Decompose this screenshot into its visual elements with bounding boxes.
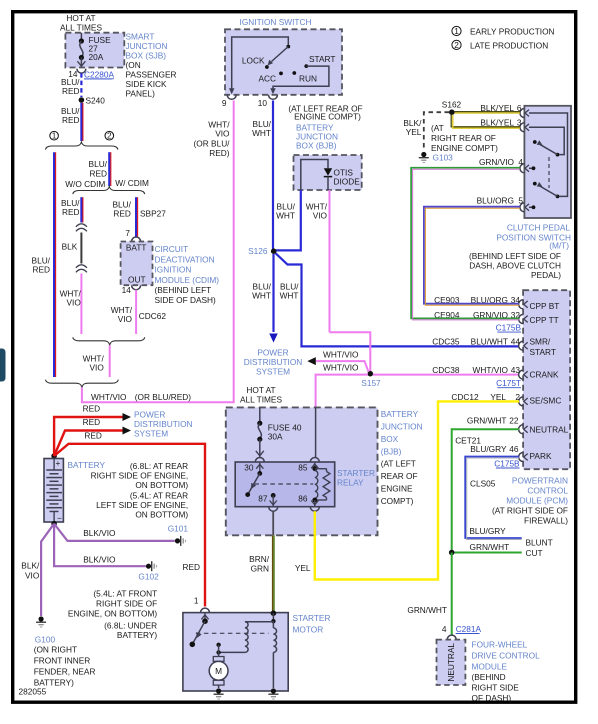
svg-text:START: START bbox=[530, 347, 556, 357]
svg-text:W/O CDIM: W/O CDIM bbox=[65, 179, 105, 189]
clutch switch upper fixed contact (pin 4) bbox=[529, 167, 532, 169]
wire BLK/YEL S162 to clutch pin 3 bbox=[451, 115, 520, 127]
svg-text:PARK: PARK bbox=[530, 451, 552, 461]
svg-text:(6.8L: UNDER: (6.8L: UNDER bbox=[104, 620, 157, 630]
relay coil parallel resistor bbox=[315, 468, 327, 470]
wire WHT/VIO (OR BLU/RED) to ignition switch pin 9 bbox=[82, 101, 234, 403]
contact LOCK bbox=[265, 65, 269, 69]
svg-text:5: 5 bbox=[518, 196, 523, 206]
relay pin 30 bbox=[255, 458, 264, 462]
svg-text:−: − bbox=[57, 513, 62, 523]
svg-text:JUNCTION: JUNCTION bbox=[381, 422, 423, 432]
svg-text:BATTERY: BATTERY bbox=[381, 409, 419, 419]
svg-text:IGNITION: IGNITION bbox=[155, 265, 192, 275]
PCM pin NEUTRAL bbox=[519, 425, 524, 434]
svg-text:PASSENGER: PASSENGER bbox=[126, 69, 177, 79]
svg-text:PEDAL): PEDAL) bbox=[531, 270, 561, 280]
clutch switch lower pole bbox=[556, 195, 560, 199]
wire WHT/VIO S157 to starter relay pin 85 bbox=[316, 375, 368, 408]
CDIM pin 14 bbox=[132, 285, 141, 290]
svg-text:FRONT INNER: FRONT INNER bbox=[34, 656, 91, 666]
PCM pin CPP TT bbox=[519, 315, 524, 324]
svg-text:7: 7 bbox=[125, 228, 130, 238]
svg-text:85: 85 bbox=[298, 463, 308, 473]
svg-text:LOCK: LOCK bbox=[242, 56, 265, 66]
svg-text:PANEL): PANEL) bbox=[126, 88, 156, 98]
svg-text:WHT/VIO: WHT/VIO bbox=[91, 392, 127, 402]
starter motor box bbox=[183, 613, 288, 691]
svg-text:RED): RED) bbox=[209, 148, 230, 158]
svg-text:OF DASH): OF DASH) bbox=[472, 693, 512, 703]
svg-text:RIGHT SIDE OF ENGINE,: RIGHT SIDE OF ENGINE, bbox=[91, 471, 189, 481]
starter solenoid ground (right) bbox=[271, 688, 276, 693]
ground G103 bbox=[421, 152, 426, 157]
svg-text:DIODE: DIODE bbox=[334, 177, 361, 187]
svg-text:VIO: VIO bbox=[215, 129, 230, 139]
svg-text:BLK: BLK bbox=[62, 242, 78, 252]
starter pull-in coil bbox=[245, 621, 274, 623]
ignition switch pin 10 bbox=[269, 95, 278, 100]
svg-text:43: 43 bbox=[511, 365, 521, 375]
svg-text:W/ CDIM: W/ CDIM bbox=[115, 178, 149, 188]
svg-text:(AT RIGHT SIDE OF: (AT RIGHT SIDE OF bbox=[492, 506, 568, 516]
starter relay box bbox=[235, 462, 335, 507]
svg-text:GRN/WHT: GRN/WHT bbox=[467, 416, 507, 426]
OTIS diode box (in BJB) bbox=[294, 155, 362, 190]
svg-text:BOX (SJB): BOX (SJB) bbox=[126, 50, 167, 60]
wire WHT/VIO inside BJB to relay pin 85 bbox=[315, 407, 317, 457]
svg-text:1: 1 bbox=[52, 131, 57, 141]
svg-text:BLK/VIO: BLK/VIO bbox=[83, 555, 116, 565]
wire WHT/VIO S157 to power distribution arrow bbox=[316, 361, 369, 372]
relay switch lever bbox=[257, 471, 262, 476]
svg-text:JUNCTION: JUNCTION bbox=[126, 41, 168, 51]
svg-text:(5.4L: AT REAR: (5.4L: AT REAR bbox=[130, 491, 188, 501]
wire GRN/WHT junction to 4WD module pin 4 bbox=[451, 553, 453, 636]
svg-text:C2280A: C2280A bbox=[84, 69, 114, 79]
junction BRN/GRN at starter bbox=[271, 610, 277, 616]
svg-text:ENGINE COMPT): ENGINE COMPT) bbox=[294, 112, 361, 122]
svg-text:(AT: (AT bbox=[431, 123, 444, 133]
svg-text:HOT AT: HOT AT bbox=[66, 13, 95, 23]
powertrain control module (PCM) box bbox=[523, 290, 570, 469]
svg-text:WHT/VIO: WHT/VIO bbox=[323, 349, 359, 359]
starter hold-in coil bbox=[272, 621, 274, 628]
svg-text:CPP BT: CPP BT bbox=[530, 301, 560, 311]
svg-text:C175B: C175B bbox=[494, 459, 520, 469]
wire BLU/GRY PCM pin 46 to blunt cut bbox=[465, 457, 522, 539]
production split brace (early/late) bbox=[46, 142, 118, 150]
wire RED battery to power distribution (1) bbox=[54, 417, 123, 456]
svg-text:(ON: (ON bbox=[126, 60, 141, 70]
svg-text:WHT: WHT bbox=[276, 211, 295, 221]
legend: late production symbol bbox=[452, 40, 461, 49]
wire GRN/WHT junction to blunt cut bbox=[455, 552, 522, 554]
svg-text:G100: G100 bbox=[35, 635, 56, 645]
svg-text:BLU/WHT: BLU/WHT bbox=[471, 336, 508, 346]
svg-text:RED: RED bbox=[113, 209, 131, 219]
svg-text:BATTERY): BATTERY) bbox=[117, 630, 157, 640]
svg-text:STARTER: STARTER bbox=[293, 613, 331, 623]
svg-text:RED: RED bbox=[62, 115, 80, 125]
svg-text:STARTER: STARTER bbox=[337, 468, 375, 478]
fuse 40 30A feed wire bbox=[259, 407, 261, 421]
svg-text:BOX (BJB): BOX (BJB) bbox=[296, 141, 337, 151]
clutch switch internal: pin 6 to lower movable contact bbox=[529, 113, 568, 196]
svg-text:RED: RED bbox=[83, 417, 101, 427]
ignition switch box bbox=[225, 29, 342, 95]
SJB pin 14 connector C2280A bbox=[77, 69, 86, 74]
svg-text:RELAY: RELAY bbox=[337, 478, 364, 488]
svg-text:20A: 20A bbox=[89, 52, 104, 62]
svg-text:BLK/YEL: BLK/YEL bbox=[480, 117, 514, 127]
svg-text:VIO: VIO bbox=[25, 570, 40, 580]
battery junction box (BJB) bbox=[226, 407, 378, 535]
svg-text:ACC: ACC bbox=[258, 74, 276, 84]
svg-text:VIO: VIO bbox=[90, 363, 105, 373]
wire BLU/WHT S126 branch to PCM pin 44 bbox=[276, 253, 520, 346]
ignition switch rotor pivot bbox=[286, 45, 290, 49]
wire BLU/WHT ignition pin 10 to S126 bbox=[272, 101, 274, 250]
ground G100 bbox=[39, 616, 44, 621]
node early production (1) bbox=[50, 131, 59, 140]
svg-text:+: + bbox=[56, 458, 61, 468]
contact RUN bbox=[292, 71, 296, 75]
fuse 40 30A bbox=[257, 421, 262, 426]
svg-text:MODULE: MODULE bbox=[472, 661, 508, 671]
svg-text:BATT: BATT bbox=[126, 242, 147, 252]
svg-text:S126: S126 bbox=[248, 246, 268, 256]
wire BLU/RED from SJB pin 14 to S240 (dashed) bbox=[80, 73, 82, 97]
svg-text:SYSTEM: SYSTEM bbox=[134, 429, 168, 439]
svg-text:RUN: RUN bbox=[299, 74, 317, 84]
svg-text:ON BOTTOM): ON BOTTOM) bbox=[135, 509, 188, 519]
svg-text:ENGINE COMPT): ENGINE COMPT) bbox=[431, 143, 498, 153]
OTIS diode internal wire bbox=[301, 160, 328, 191]
starter solenoid switch bbox=[204, 613, 206, 622]
svg-text:BRN/: BRN/ bbox=[249, 554, 270, 564]
wire RED battery to power distribution (2) bbox=[54, 431, 123, 457]
battery bbox=[44, 459, 63, 523]
W/O CDIM vs W/ CDIM split brace bbox=[73, 187, 145, 195]
relay coil bbox=[315, 471, 318, 499]
smart junction box (SJB) fuse box bbox=[65, 33, 124, 68]
wire BLK/YEL S162 to clutch pin 6 bbox=[455, 111, 521, 113]
clutch switch internal: pin 3 to upper movable contact bbox=[529, 127, 564, 154]
svg-text:S157: S157 bbox=[361, 378, 381, 388]
svg-text:POWER: POWER bbox=[257, 348, 288, 358]
svg-text:G102: G102 bbox=[138, 572, 159, 582]
OTIS diode symbol bbox=[324, 168, 332, 176]
clutch switch lower fixed contact (pin 5) bbox=[529, 206, 532, 208]
wire BLU/RED early-production branch bbox=[53, 152, 55, 377]
ground G101 bbox=[175, 538, 180, 543]
svg-text:CDC35: CDC35 bbox=[432, 336, 460, 346]
svg-text:2: 2 bbox=[107, 131, 112, 141]
svg-text:SYSTEM: SYSTEM bbox=[256, 367, 290, 377]
in-line connector (W/O CDIM lower) bbox=[76, 265, 87, 268]
clutch switch pin 6 bbox=[520, 109, 525, 118]
svg-text:(BEHIND: (BEHIND bbox=[472, 672, 506, 682]
contact START bbox=[304, 64, 308, 68]
wire coil to motor bbox=[219, 651, 245, 653]
svg-text:RED: RED bbox=[89, 169, 107, 179]
svg-text:CDC62: CDC62 bbox=[139, 311, 167, 321]
relay pin 85 bbox=[310, 458, 319, 463]
PCM pin CRANK bbox=[519, 370, 524, 379]
svg-text:MODULE (PCM): MODULE (PCM) bbox=[506, 496, 568, 506]
wire GRN/WHT PCM pin 22 down bbox=[452, 429, 519, 550]
svg-text:RED: RED bbox=[62, 86, 80, 96]
svg-text:SMR/: SMR/ bbox=[530, 336, 551, 346]
svg-text:DISTRIBUTION: DISTRIBUTION bbox=[244, 357, 303, 367]
svg-text:BLK/VIO: BLK/VIO bbox=[83, 528, 116, 538]
svg-text:MOTOR: MOTOR bbox=[293, 625, 324, 635]
battery positive junction bbox=[51, 453, 57, 459]
clutch switch pin 5 bbox=[520, 203, 525, 212]
wire (brn/grn) relay pin 87 inside BJB bbox=[272, 511, 274, 535]
svg-text:RED: RED bbox=[32, 265, 50, 275]
wire BLK/YEL S162 to G103 (dashed) bbox=[424, 112, 449, 150]
wire BRN/GRN relay pin 87 to starter motor bbox=[272, 535, 274, 611]
svg-text:30A: 30A bbox=[268, 432, 283, 442]
svg-text:POWERTRAIN: POWERTRAIN bbox=[512, 476, 568, 486]
wire BLU/RED from S240 to production split bbox=[80, 103, 82, 141]
svg-text:GRN/WHT: GRN/WHT bbox=[470, 542, 510, 552]
svg-text:GRN: GRN bbox=[251, 564, 269, 574]
svg-text:VIO: VIO bbox=[118, 314, 133, 324]
svg-text:C281A: C281A bbox=[456, 624, 482, 634]
wire BLU/RED (W/O CDIM) bbox=[80, 197, 82, 222]
clutch pedal position switch box bbox=[524, 106, 571, 218]
wire BLU/ORG clutch pin 5 to PCM pin 34 bbox=[424, 207, 520, 304]
svg-text:(M/T): (M/T) bbox=[549, 241, 569, 251]
svg-text:44: 44 bbox=[511, 336, 521, 346]
svg-text:YEL: YEL bbox=[295, 563, 311, 573]
splice S162 bbox=[449, 109, 455, 115]
svg-text:VIO: VIO bbox=[67, 298, 82, 308]
svg-text:BLU/ORG: BLU/ORG bbox=[477, 196, 514, 206]
svg-text:NEUTRAL: NEUTRAL bbox=[530, 424, 569, 434]
svg-text:C175T: C175T bbox=[496, 378, 521, 388]
svg-text:BOX: BOX bbox=[381, 434, 399, 444]
svg-text:(ON RIGHT: (ON RIGHT bbox=[34, 644, 77, 654]
svg-text:WHT/VIO: WHT/VIO bbox=[473, 365, 509, 375]
svg-text:RED: RED bbox=[84, 430, 102, 440]
ignition switch lever bbox=[272, 47, 289, 62]
svg-text:WHT/VIO: WHT/VIO bbox=[323, 362, 359, 372]
svg-text:(OR BLU/: (OR BLU/ bbox=[194, 139, 231, 149]
svg-text:CONTROL: CONTROL bbox=[527, 486, 568, 496]
svg-text:(BJB): (BJB) bbox=[381, 447, 402, 457]
clutch switch pin 4 bbox=[520, 164, 525, 173]
svg-text:OUT: OUT bbox=[128, 274, 146, 284]
svg-text:COMPT): COMPT) bbox=[381, 496, 414, 506]
battery negative junction bbox=[51, 521, 57, 527]
svg-text:BATTERY: BATTERY bbox=[68, 460, 106, 470]
svg-text:NEUTRAL: NEUTRAL bbox=[446, 643, 456, 682]
splice S240 bbox=[79, 97, 85, 103]
svg-text:(AT LEFT: (AT LEFT bbox=[381, 459, 416, 469]
svg-text:G101: G101 bbox=[168, 524, 189, 534]
svg-text:ALL TIMES: ALL TIMES bbox=[240, 394, 282, 404]
svg-text:4: 4 bbox=[442, 624, 447, 634]
fuse 27 20A bbox=[80, 33, 82, 41]
svg-text:EARLY PRODUCTION: EARLY PRODUCTION bbox=[470, 27, 555, 37]
svg-text:1: 1 bbox=[454, 26, 459, 36]
wire BLK/VIO battery to G101 bbox=[54, 524, 175, 541]
four-wheel drive control module (NEUTRAL) box bbox=[437, 640, 466, 685]
svg-text:SIDE KICK: SIDE KICK bbox=[126, 79, 168, 89]
svg-text:10: 10 bbox=[258, 98, 268, 108]
svg-text:ENGINE: ENGINE bbox=[381, 484, 413, 494]
svg-text:C175B: C175B bbox=[496, 323, 522, 333]
svg-text:ON BOTTOM): ON BOTTOM) bbox=[135, 480, 188, 490]
svg-text:22: 22 bbox=[509, 416, 519, 426]
wire BLU/RED late-production branch bbox=[108, 152, 110, 186]
svg-text:CDC38: CDC38 bbox=[432, 365, 460, 375]
svg-text:IGNITION SWITCH: IGNITION SWITCH bbox=[240, 17, 312, 27]
svg-text:WHT: WHT bbox=[252, 128, 271, 138]
svg-text:(6.8L: AT REAR: (6.8L: AT REAR bbox=[130, 461, 188, 471]
svg-text:DISTRIBUTION: DISTRIBUTION bbox=[134, 419, 193, 429]
svg-text:ENGINE, ON BOTTOM): ENGINE, ON BOTTOM) bbox=[68, 608, 158, 618]
PCM pin SMR bbox=[519, 341, 524, 350]
4WD module pin 4 connector C281A bbox=[447, 635, 456, 640]
svg-text:BLU/GRY: BLU/GRY bbox=[469, 526, 506, 536]
svg-text:START: START bbox=[309, 54, 335, 64]
svg-text:RIGHT REAR OF: RIGHT REAR OF bbox=[431, 133, 496, 143]
splice S157 bbox=[368, 371, 374, 377]
wire BLK/VIO battery to G102 bbox=[54, 524, 146, 567]
in-line connector (W/O CDIM upper) bbox=[76, 224, 87, 227]
svg-text:1: 1 bbox=[194, 596, 199, 606]
svg-text:RED: RED bbox=[62, 207, 80, 217]
clutch switch pin 3 bbox=[520, 123, 525, 132]
ignition switch internal: START to pin 10 path bbox=[273, 66, 329, 90]
svg-text:282055: 282055 bbox=[19, 687, 47, 697]
circuit deactivation ignition module (CDIM) bbox=[121, 242, 153, 286]
svg-text:BLUNT: BLUNT bbox=[526, 538, 553, 548]
svg-text:BLK/: BLK/ bbox=[21, 561, 40, 571]
svg-text:RIGHT SIDE OF: RIGHT SIDE OF bbox=[96, 599, 157, 609]
wire BLU/WHT from OTIS diode to S126 bbox=[276, 190, 301, 250]
svg-text:(5.4L: AT FRONT: (5.4L: AT FRONT bbox=[93, 589, 157, 599]
wire GRN/VIO clutch pin 4 to PCM pin 32 bbox=[411, 168, 520, 319]
svg-text:FENDER, NEAR: FENDER, NEAR bbox=[34, 667, 96, 677]
wire WHT/VIO from OTIS diode down bbox=[329, 190, 331, 332]
svg-text:14: 14 bbox=[122, 285, 132, 295]
svg-text:S240: S240 bbox=[86, 95, 106, 105]
wire WHT/VIO CDC62 bbox=[135, 290, 137, 334]
wire WHT/VIO OTIS to S157 bbox=[330, 332, 371, 371]
svg-text:CRANK: CRANK bbox=[530, 370, 560, 380]
svg-text:M: M bbox=[215, 666, 222, 676]
wire YEL relay pin 86 to PCM pin 2 (SE/SMC) bbox=[315, 401, 519, 579]
svg-text:FIREWALL): FIREWALL) bbox=[524, 516, 568, 526]
starter motor M bbox=[216, 643, 220, 647]
wire BLU/RED SBP27 (W/ CDIM) bbox=[135, 197, 137, 236]
svg-text:87: 87 bbox=[258, 494, 268, 504]
left edge UI tab bbox=[0, 349, 6, 382]
svg-text:2: 2 bbox=[454, 40, 459, 50]
wire WHT/VIO merged bbox=[109, 345, 111, 377]
svg-text:MODULE (CDIM): MODULE (CDIM) bbox=[155, 275, 220, 285]
svg-text:DRIVE CONTROL: DRIVE CONTROL bbox=[472, 651, 541, 661]
svg-text:86: 86 bbox=[298, 494, 308, 504]
svg-text:(BEHIND LEFT SIDE OF: (BEHIND LEFT SIDE OF bbox=[469, 251, 561, 261]
svg-text:GRN/VIO: GRN/VIO bbox=[479, 157, 515, 167]
svg-text:CPP TT: CPP TT bbox=[530, 315, 559, 325]
wire WHT/VIO (W/O CDIM) bbox=[80, 274, 82, 335]
svg-text:RED: RED bbox=[182, 562, 200, 572]
svg-text:RIGHT SIDE: RIGHT SIDE bbox=[472, 682, 520, 692]
svg-text:46: 46 bbox=[509, 444, 519, 454]
svg-text:CLS05: CLS05 bbox=[470, 479, 496, 489]
svg-text:DASH, ABOVE CLUTCH: DASH, ABOVE CLUTCH bbox=[469, 261, 561, 271]
svg-text:DEACTIVATION: DEACTIVATION bbox=[155, 254, 215, 264]
svg-text:CLUTCH PEDAL: CLUTCH PEDAL bbox=[507, 223, 571, 233]
contact ACC bbox=[279, 72, 283, 76]
svg-text:G103: G103 bbox=[433, 153, 454, 163]
svg-text:BLU/: BLU/ bbox=[89, 159, 108, 169]
svg-text:ALL TIMES: ALL TIMES bbox=[60, 23, 102, 33]
CDIM branches merge brace bbox=[73, 337, 145, 345]
svg-text:30: 30 bbox=[244, 463, 254, 473]
svg-text:SIDE OF DASH): SIDE OF DASH) bbox=[155, 295, 217, 305]
starter motor ground (left) bbox=[216, 688, 221, 693]
ignition switch pin 9 bbox=[227, 95, 236, 100]
relay actuation link (dashed) bbox=[254, 483, 313, 485]
starter pin 1 bbox=[201, 608, 210, 613]
wire YEL relay pin 86 inside BJB bbox=[314, 511, 316, 535]
svg-text:WHT: WHT bbox=[252, 291, 271, 301]
svg-text:3: 3 bbox=[517, 117, 522, 127]
svg-text:LATE PRODUCTION: LATE PRODUCTION bbox=[470, 41, 548, 51]
clutch switch mechanical link (dashed) bbox=[548, 157, 550, 188]
PCM pin SE/SMC bbox=[519, 397, 524, 406]
ground G102 bbox=[146, 564, 151, 569]
node late production (2) bbox=[105, 131, 114, 140]
svg-text:FOUR-WHEEL: FOUR-WHEEL bbox=[472, 640, 528, 650]
svg-text:(OR BLU/RED): (OR BLU/RED) bbox=[135, 392, 191, 402]
wire BLK/VIO battery to G100 bbox=[41, 524, 54, 616]
svg-text:9: 9 bbox=[222, 98, 227, 108]
production branches merge brace bbox=[46, 380, 119, 388]
svg-text:VIO: VIO bbox=[313, 211, 328, 221]
svg-text:SMART: SMART bbox=[126, 31, 155, 41]
ignition switch internal: pin 9 feed path bbox=[232, 37, 289, 90]
svg-text:BLK/YEL: BLK/YEL bbox=[480, 103, 514, 113]
svg-text:CUT: CUT bbox=[526, 548, 543, 558]
svg-text:RED: RED bbox=[83, 404, 101, 414]
svg-text:SE/SMC: SE/SMC bbox=[530, 395, 562, 405]
svg-text:GRN/WHT: GRN/WHT bbox=[407, 605, 447, 615]
svg-text:WHT: WHT bbox=[280, 291, 299, 301]
PCM pin PARK bbox=[519, 453, 524, 462]
wire BLK (W/O CDIM) bbox=[80, 233, 82, 264]
svg-text:POWER: POWER bbox=[134, 409, 165, 419]
wire WHT/VIO S157 to PCM pin 43 bbox=[373, 374, 519, 376]
svg-text:CIRCUIT: CIRCUIT bbox=[155, 244, 189, 254]
PCM pin CPP BT bbox=[519, 300, 524, 309]
legend: early production symbol bbox=[452, 26, 461, 35]
wire RED battery to starter motor pin 1 bbox=[54, 444, 205, 607]
wire BLU/WHT S126 down to power distribution bbox=[272, 254, 274, 332]
svg-text:REAR OF: REAR OF bbox=[381, 471, 418, 481]
svg-text:4: 4 bbox=[518, 157, 523, 167]
svg-text:SBP27: SBP27 bbox=[140, 209, 166, 219]
